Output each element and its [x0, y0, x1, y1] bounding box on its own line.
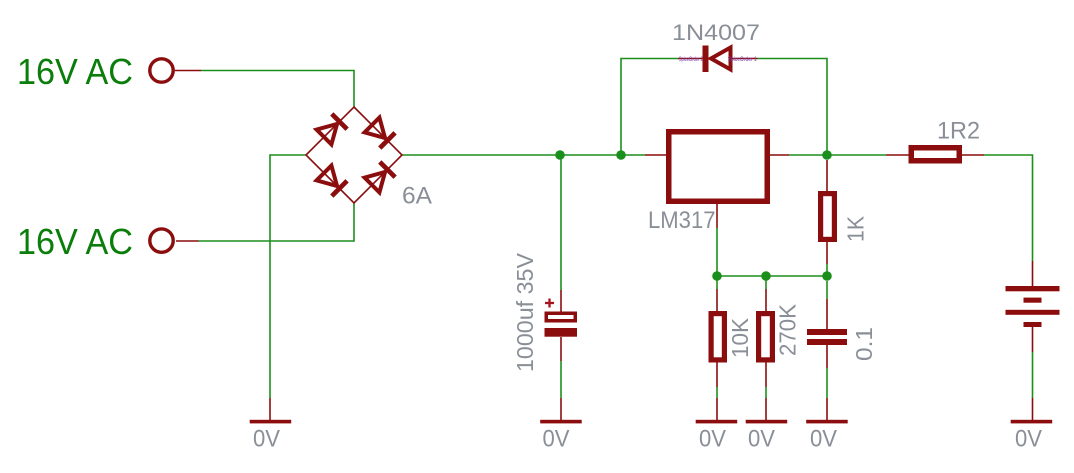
svg-text:1R2: 1R2 — [937, 118, 980, 145]
svg-text:0V: 0V — [810, 426, 837, 453]
svg-text:1N4007: 1N4007 — [672, 20, 760, 45]
svg-text:0.1: 0.1 — [851, 327, 877, 361]
svg-text:0V: 0V — [253, 426, 280, 453]
svg-text:0V: 0V — [748, 426, 775, 453]
svg-text:16V AC: 16V AC — [17, 51, 133, 92]
svg-text:SpiceOrder 2: SpiceOrder 2 — [679, 57, 703, 63]
svg-text:6A: 6A — [402, 183, 432, 210]
svg-text:0V: 0V — [699, 426, 726, 453]
svg-text:270K: 270K — [775, 303, 801, 356]
svg-text:SpiceOrder 1: SpiceOrder 1 — [728, 57, 758, 63]
svg-text:1K: 1K — [843, 215, 869, 242]
svg-text:0V: 0V — [1015, 426, 1042, 453]
svg-text:10K: 10K — [727, 317, 753, 358]
svg-text:1000uf 35V: 1000uf 35V — [512, 252, 538, 372]
svg-text:16V AC: 16V AC — [17, 221, 133, 262]
svg-text:0V: 0V — [543, 426, 570, 453]
svg-text:LM317: LM317 — [648, 207, 716, 234]
